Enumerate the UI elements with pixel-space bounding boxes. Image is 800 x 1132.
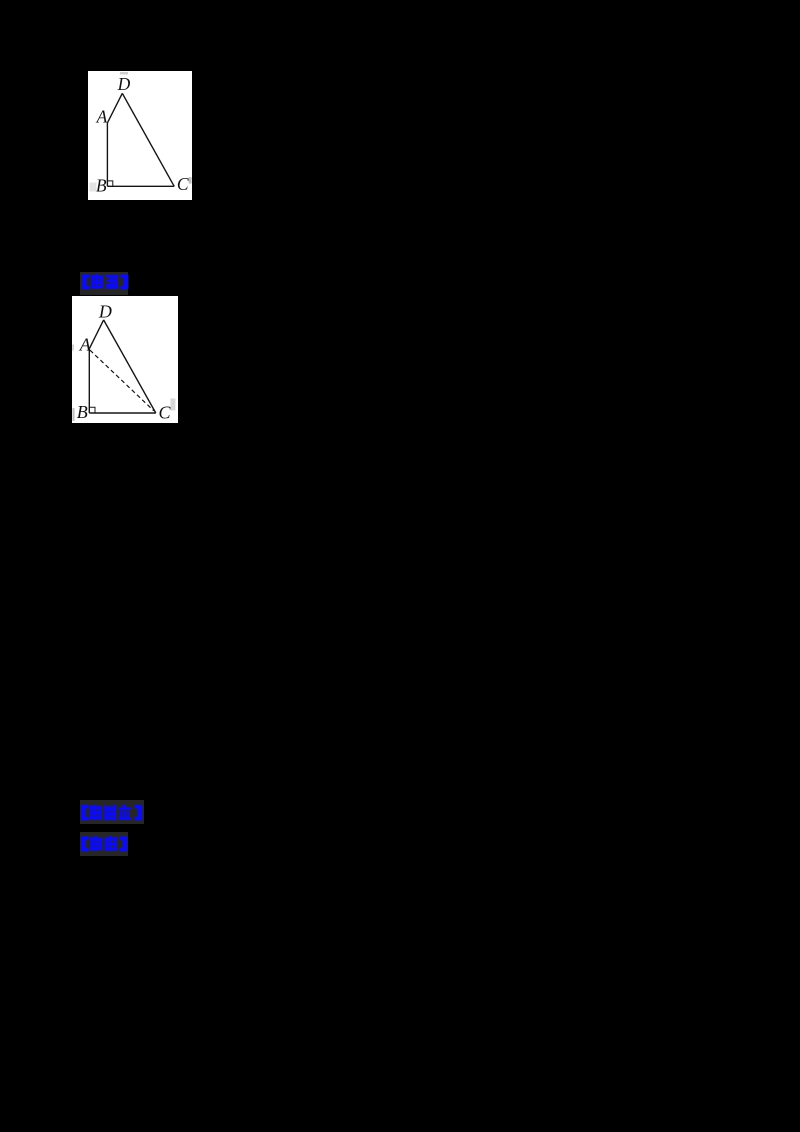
right-angle marker at B	[89, 407, 95, 413]
blue heading 3	[81, 835, 128, 853]
wire BC (base)	[107, 185, 174, 187]
halo behind blue heading 2	[80, 800, 144, 824]
right-angle marker at B	[107, 181, 112, 186]
wire CD (hypotenuse)	[104, 320, 156, 413]
artifact right of C	[189, 177, 192, 184]
wire AB (vertical side)	[88, 349, 90, 413]
figure panel 2 (quadrilateral ABCD with dashed AC)	[72, 296, 178, 423]
artifact right of C	[170, 399, 175, 411]
svg-text:A: A	[79, 335, 92, 355]
artifact left edge near B	[73, 408, 75, 421]
wire DA	[89, 320, 103, 349]
artifact above D	[120, 72, 128, 75]
svg-text:B: B	[77, 402, 88, 422]
figure panel 1 (quadrilateral ABCD)	[88, 71, 192, 200]
svg-text:D: D	[117, 74, 131, 94]
blue heading 1	[82, 273, 129, 291]
svg-text:C: C	[177, 174, 189, 194]
artifact left of B	[90, 183, 97, 192]
svg-text:B: B	[96, 175, 107, 195]
dashed construction line AC	[90, 350, 154, 411]
blue heading 2	[81, 803, 143, 822]
wire AB (vertical side)	[106, 123, 108, 186]
halo behind blue heading 1	[80, 272, 128, 295]
artifact left edge near A	[72, 345, 74, 351]
halo behind blue heading 3	[80, 832, 128, 856]
wire DA	[107, 93, 122, 123]
svg-text:C: C	[158, 402, 171, 422]
svg-text:D: D	[98, 302, 112, 322]
wire BC (base)	[89, 412, 156, 414]
wire CD (hypotenuse)	[122, 93, 174, 186]
svg-text:A: A	[96, 106, 108, 126]
